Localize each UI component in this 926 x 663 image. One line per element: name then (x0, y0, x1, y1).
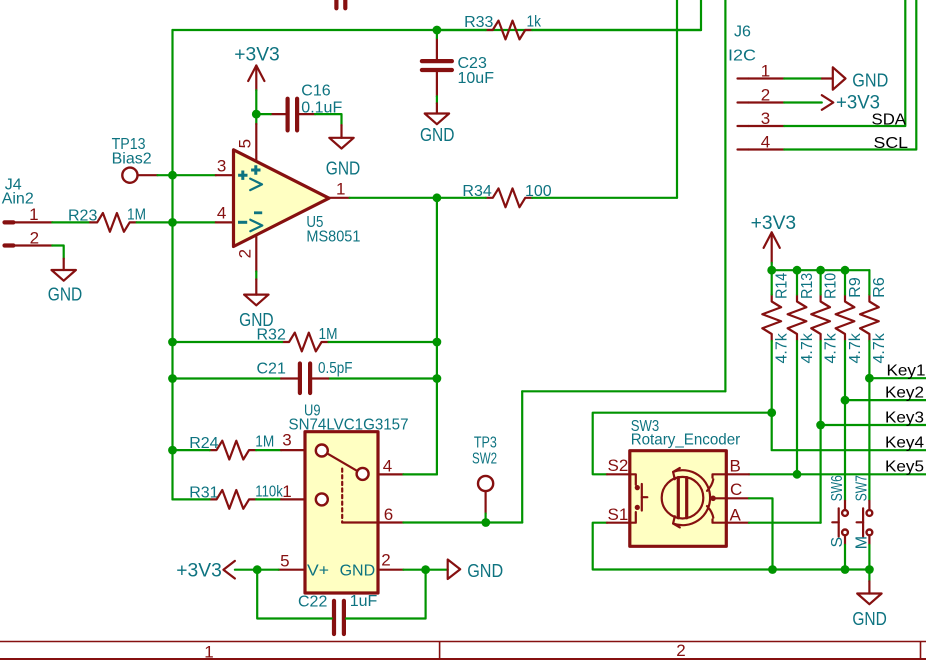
resistor R10 4.7k (811, 273, 839, 364)
svg-text:1uF: 1uF (350, 593, 378, 610)
svg-text:4.7k: 4.7k (822, 332, 839, 363)
node label Key4 (885, 435, 924, 452)
svg-text:4.7k: 4.7k (774, 332, 791, 363)
SW3 rotary symbol (662, 468, 710, 527)
svg-text:M: M (853, 536, 870, 549)
svg-text:R6: R6 (871, 277, 888, 298)
wire GND drop (868, 570, 870, 582)
U9 pin 2 (340, 551, 404, 580)
svg-text:R14: R14 (774, 273, 791, 299)
junction node TP3 (481, 518, 490, 527)
wire J4 pin2 to GND (52, 246, 63, 259)
ground GND (J6 pin1, right arrow) (833, 67, 889, 90)
switch SW7 (853, 475, 872, 549)
ground GND (C16) (326, 125, 361, 178)
U9 pin 4 (378, 457, 403, 476)
svg-text:SCL: SCL (874, 135, 909, 152)
svg-text:GND: GND (420, 124, 455, 145)
wire R24 leads / U9 pin 3 (173, 449, 282, 451)
svg-text:+3V3: +3V3 (751, 213, 797, 234)
svg-text:+3V3: +3V3 (176, 560, 222, 581)
svg-text:GND: GND (852, 608, 887, 629)
connector J4 (2, 177, 53, 248)
capacitor C21 0.5pF (257, 360, 353, 393)
junction node R14/S2 (767, 408, 776, 417)
junction nodes +3V3 rail (767, 266, 849, 275)
wire C16 right to GND (315, 114, 341, 125)
resistor R31 110k (189, 484, 283, 509)
wire R6 column to SW7 (868, 270, 870, 501)
capacitor C22 1uF (298, 593, 377, 634)
wire J4 pin1 to R23 (52, 221, 90, 223)
svg-text:C: C (730, 480, 742, 499)
wire C22 left (257, 570, 332, 619)
sheet zone number 2 (676, 641, 685, 660)
SW3 pin S1 (607, 505, 630, 524)
svg-text:R13: R13 (799, 273, 816, 299)
wire vertical x=436.9 mid (436, 198, 438, 475)
resistor R33 1k (464, 14, 542, 40)
svg-text:V+: V+ (307, 563, 329, 580)
resistor R34 100 (462, 183, 551, 207)
svg-text:1M: 1M (319, 326, 338, 343)
svg-text:5: 5 (280, 552, 289, 571)
svg-text:2: 2 (381, 551, 390, 570)
junction nodes bottom rail (768, 565, 874, 574)
wire left vertical bus x=172.5 (171, 30, 173, 499)
rotary encoder SW3 (630, 418, 741, 546)
capacitor C23 10uF (422, 38, 494, 96)
node label Key1 (887, 363, 926, 380)
svg-text:10uF: 10uF (458, 70, 495, 87)
wire pin1 to node (350, 197, 437, 199)
SW3 wiper contacts (707, 474, 726, 522)
capacitor C21 leads (281, 377, 328, 379)
connector J6 I2C (728, 24, 756, 65)
ground GND (J4) (48, 259, 83, 305)
IC U9 SN74LVC1G3157 (289, 403, 409, 593)
ground GND (op-amp) (239, 279, 274, 330)
svg-text:2: 2 (761, 85, 770, 104)
svg-text:1M: 1M (255, 434, 274, 451)
svg-text:C21: C21 (257, 361, 286, 378)
junction node pin2/C22 (421, 565, 430, 574)
power +3V3 (opamp) (234, 45, 280, 91)
wire +3V3 rail keys (772, 263, 870, 270)
sheet border bottom (0, 642, 926, 660)
J6 pin 2 (738, 85, 785, 104)
svg-text:1: 1 (336, 179, 345, 198)
op-amp U5 pin 5 (236, 124, 257, 161)
wire pin2 to GND arrow (403, 569, 447, 571)
svg-text:R9: R9 (847, 277, 864, 298)
svg-text:A: A (730, 506, 742, 525)
wire vertical x=725.4 long (724, 0, 726, 391)
svg-text:SW6: SW6 (829, 475, 846, 501)
wire J6 pin1 to GND (784, 77, 822, 79)
wire R32 leads (173, 341, 437, 343)
wire vertical x=522.2 to pin6 (521, 391, 523, 522)
svg-text:SW7: SW7 (854, 475, 871, 501)
J6 pin 4 (738, 133, 785, 152)
wire R23 to opamp pin4 (137, 221, 216, 223)
svg-text:1M: 1M (127, 207, 146, 224)
capacitor C16 0.1uF (271, 83, 343, 131)
op-amp U5 pin 4 (216, 204, 247, 224)
svg-text:6: 6 (384, 505, 393, 524)
svg-text:1k: 1k (527, 14, 542, 31)
wire C net (749, 498, 773, 569)
node label SCL (874, 135, 909, 152)
svg-text:4: 4 (761, 133, 770, 152)
wire U9 pin6 to right (403, 521, 522, 523)
svg-text:SW2: SW2 (472, 451, 497, 468)
wire Key1 (869, 377, 926, 379)
junction node R10/Key3 (816, 421, 825, 430)
wire SW6 bottom (844, 545, 846, 570)
svg-text:3: 3 (282, 430, 291, 449)
svg-text:GND: GND (326, 157, 361, 178)
wire S1 branch (593, 523, 870, 570)
wire R9 column to SW6 (844, 270, 846, 501)
junction node pin5/C16 (252, 110, 261, 119)
svg-text:4.7k: 4.7k (871, 332, 888, 363)
ground GND (C23) (420, 103, 455, 145)
svg-text:+3V3: +3V3 (234, 45, 280, 66)
junction node pin5/C22 (253, 565, 262, 574)
svg-text:Rotary_Encoder: Rotary_Encoder (631, 432, 741, 449)
svg-text:Bias2: Bias2 (112, 150, 152, 167)
svg-text:SDA: SDA (872, 111, 907, 128)
wire Key3 (821, 424, 926, 426)
ground GND (U9 pin2, right arrow) (448, 560, 504, 581)
svg-text:B: B (730, 456, 741, 475)
testpoint TP13 (112, 136, 158, 183)
svg-text:4.7k: 4.7k (847, 332, 864, 363)
svg-text:3: 3 (217, 156, 226, 175)
wire SCL net (784, 0, 916, 150)
svg-text:Key5: Key5 (885, 459, 924, 476)
wire R34 leads (437, 197, 677, 199)
op-amp U5 pin name V- (250, 211, 262, 231)
svg-text:S1: S1 (608, 505, 629, 524)
wire A net (749, 522, 821, 524)
wire J6 pin2 to +3V3 (784, 101, 822, 103)
op-amp U5 MS8051 (234, 150, 361, 247)
U9 pin 5 (279, 552, 330, 580)
wire opamp pin2 tail (255, 272, 257, 280)
svg-text:4: 4 (217, 204, 226, 223)
SW3 internal push switch (630, 474, 648, 522)
wire R31 leads / U9 pin 1 (173, 498, 282, 500)
svg-text:3: 3 (761, 109, 770, 128)
J6 pin 1 (738, 61, 785, 80)
resistor R32 1M (257, 326, 338, 351)
wire TP3 stub (485, 514, 487, 523)
wire +3V3 to pin5 node (255, 90, 257, 124)
wire R33 leads (437, 29, 701, 31)
SW3 pin A (726, 506, 749, 525)
svg-text:Key1: Key1 (887, 363, 926, 380)
resistor R23 1M (68, 207, 146, 232)
junction node top wire/C23 (433, 26, 442, 35)
svg-text:Key2: Key2 (885, 385, 924, 402)
wire R10 column (to A pin) (819, 270, 821, 523)
resistor R14 4.7k (762, 273, 790, 364)
SW3 pin B (726, 456, 749, 475)
testpoint TP3 SW2 (472, 435, 497, 514)
capacitor C? (partial, top edge) (336, 0, 345, 8)
wire C16 left (256, 113, 270, 115)
power +3V3 (U9 pin5, left arrow) (176, 560, 235, 581)
svg-text:S: S (829, 537, 846, 548)
resistor R6 4.7k (860, 277, 888, 363)
resistor R24 1M (189, 434, 274, 460)
wire TP13 to opamp pin3 (158, 174, 216, 176)
wire R14 column (772, 270, 926, 450)
U9 switch symbol (316, 445, 378, 523)
junction nodes left bus (168, 171, 177, 455)
wire SW7 bottom (868, 545, 870, 570)
svg-text:0.5pF: 0.5pF (318, 360, 353, 377)
node label SDA (872, 111, 907, 128)
svg-text:2: 2 (236, 249, 255, 258)
node label Key3 (885, 410, 924, 427)
svg-text:110k: 110k (255, 484, 283, 501)
svg-text:1: 1 (29, 205, 38, 224)
J6 pin 3 (738, 109, 785, 128)
svg-text:J6: J6 (734, 24, 751, 41)
svg-text:2: 2 (30, 229, 39, 248)
U9 pin 6 (378, 505, 403, 524)
U9 pin 1 (281, 482, 305, 501)
wire C22 right (346, 570, 426, 619)
wire horizontal y=391.3 (522, 390, 725, 392)
svg-text:S2: S2 (608, 456, 629, 475)
switch SW6 (829, 475, 848, 547)
ground GND (bottom right) (852, 581, 887, 629)
svg-text:4.7k: 4.7k (799, 332, 816, 363)
wire U9 pin4 to mid bus (403, 473, 437, 475)
svg-text:2: 2 (676, 641, 685, 660)
svg-text:GND: GND (48, 283, 83, 304)
wire C23 top stub (436, 30, 438, 38)
svg-text:MS8051: MS8051 (306, 228, 360, 245)
U9 pin 3 (281, 430, 305, 450)
op-amp U5 pin 1 output (329, 179, 350, 198)
svg-text:1: 1 (204, 642, 213, 661)
wire C21 leads (173, 377, 437, 379)
node label Key5 (885, 459, 924, 476)
wire vertical x=677 to R34 (676, 0, 678, 198)
svg-text:C22: C22 (298, 594, 327, 611)
wire Key5/B (749, 473, 926, 475)
wire R13 column (796, 270, 798, 474)
node label Key2 (885, 385, 924, 402)
op-amp U5 pin name V+ (250, 165, 262, 190)
resistor R9 4.7k (836, 277, 864, 363)
svg-text:I2C: I2C (728, 48, 756, 65)
svg-text:GND: GND (852, 70, 888, 91)
sheet zone number 1 (204, 642, 213, 661)
wire C23 bottom stub (436, 96, 438, 103)
power +3V3 (keys pullups) (751, 213, 797, 263)
wire SDA net (784, 0, 905, 126)
wire Key2 (845, 399, 926, 401)
power +3V3 (J6 pin2, right arrow) (822, 93, 880, 114)
svg-text:4: 4 (383, 457, 392, 476)
SW3 pin C (716, 480, 749, 499)
junction node R13/Key5 (793, 470, 802, 479)
svg-text:Key3: Key3 (885, 410, 924, 427)
svg-text:Key4: Key4 (885, 435, 924, 452)
svg-text:C16: C16 (301, 83, 330, 100)
pin GND symbol stub (822, 77, 833, 79)
svg-text:1: 1 (282, 482, 291, 501)
svg-text:GND: GND (340, 563, 376, 580)
wire vertical x=701 from R33 (700, 0, 702, 30)
resistor R13 4.7k (788, 273, 816, 364)
svg-text:5: 5 (236, 139, 255, 148)
svg-text:R33: R33 (464, 14, 493, 31)
wire S2 branch (593, 413, 772, 475)
wire +3V3 to pin5 (235, 569, 279, 571)
wire top horizontal net (173, 29, 702, 31)
junction node R34 (433, 193, 442, 202)
svg-text:R10: R10 (822, 273, 839, 299)
svg-text:1: 1 (761, 61, 770, 80)
junction node R9/Key2 (841, 396, 850, 405)
junction node R6/Key1 (865, 374, 874, 383)
SW3 pin S2 (607, 456, 630, 475)
svg-text:TP3: TP3 (474, 435, 497, 452)
junction nodes mid bus (433, 338, 442, 383)
svg-text:GND: GND (467, 560, 503, 581)
op-amp U5 pin 2 (236, 236, 257, 272)
op-amp U5 pin 3 (216, 156, 248, 180)
